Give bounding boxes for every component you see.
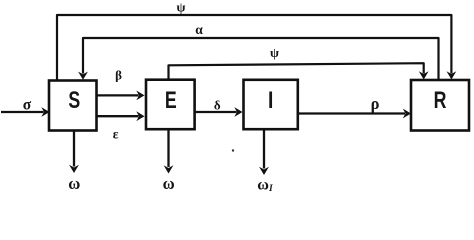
arrow epsilon S to E (lower): [97, 111, 145, 121]
arrowhead psi(E) into R top: [419, 71, 429, 79]
svg-text:E: E: [165, 87, 177, 113]
box I: [244, 80, 298, 129]
svg-text:δ: δ: [214, 98, 221, 113]
svg-text:ψ: ψ: [177, 0, 186, 15]
wire alpha feedback R to S (second line): [83, 38, 439, 82]
svg-text:I: I: [268, 86, 273, 114]
stray dot artifact: [232, 149, 234, 151]
svg-text:ψ: ψ: [270, 45, 279, 60]
svg-text:ε: ε: [113, 126, 119, 141]
svg-text:α: α: [195, 22, 203, 37]
arrow beta S to E (upper): [97, 91, 145, 101]
svg-text:β: β: [115, 67, 122, 82]
svg-text:ω: ω: [163, 174, 175, 193]
box E: [146, 80, 195, 130]
box R: [411, 80, 469, 131]
svg-text:σ: σ: [23, 97, 32, 114]
svg-text:ω: ω: [68, 174, 80, 193]
wire psi feedback S to R (top line): [57, 15, 451, 81]
arrow delta E to I: [195, 107, 243, 117]
arrow omega_I out of I bottom: [259, 129, 269, 175]
wire psi feedback E to R (third line): [169, 63, 424, 79]
svg-text:S: S: [68, 87, 80, 113]
svg-text:ρ: ρ: [371, 94, 380, 113]
box S: [49, 81, 97, 131]
svg-text:R: R: [434, 87, 447, 113]
arrowhead alpha into S top: [78, 72, 88, 80]
arrow omega out of S bottom: [69, 131, 79, 174]
arrow omega out of E bottom: [164, 129, 174, 173]
arrow rho I to R: [298, 109, 411, 119]
arrowhead psi into R top: [447, 71, 457, 79]
arrow sigma input into S: [1, 107, 50, 117]
